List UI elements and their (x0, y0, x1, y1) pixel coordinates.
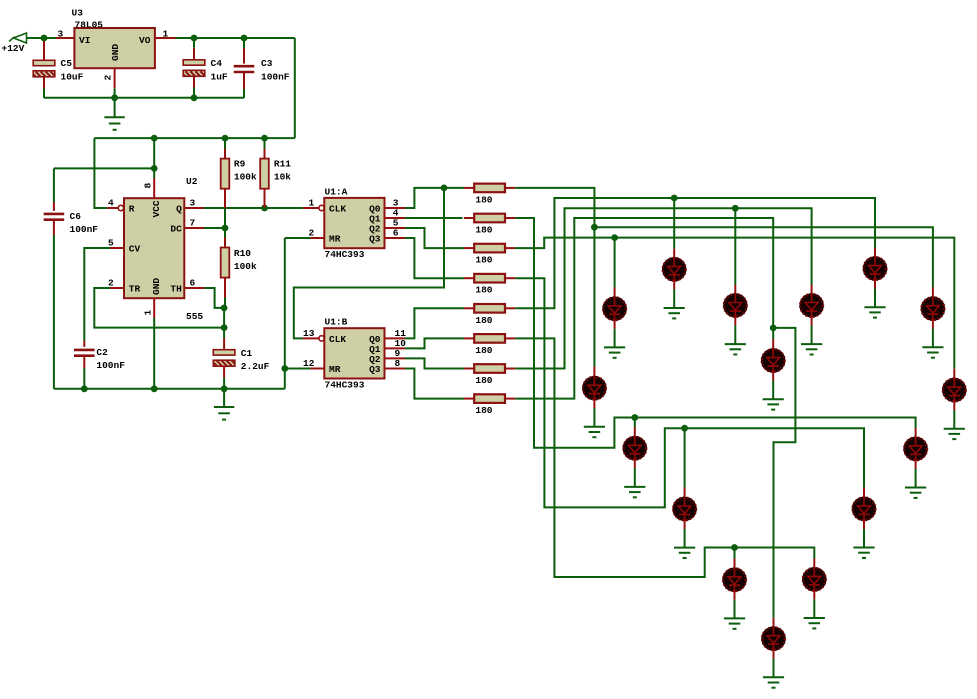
wire rail right corner (294, 38, 296, 138)
resistor R11 10k (260, 159, 269, 189)
svg-text:R11: R11 (274, 159, 291, 170)
node C3 tap (241, 35, 248, 42)
counter U1:A body (324, 198, 384, 248)
wire row4 dive (515, 278, 864, 507)
node row2 branch (631, 414, 638, 421)
node row7 branch (732, 205, 739, 212)
svg-text:6: 6 (190, 278, 196, 289)
svg-text:MR: MR (329, 234, 341, 245)
svg-text:100k: 100k (234, 172, 257, 183)
svg-text:R10: R10 (234, 248, 251, 259)
svg-text:TH: TH (170, 283, 182, 294)
svg-text:+12V: +12V (2, 43, 25, 54)
wire CLK13 pin (303, 337, 319, 339)
LED D13 (863, 488, 865, 498)
resistor R8 180 (464, 394, 515, 403)
svg-text:100nF: 100nF (261, 71, 290, 82)
wire D9 cathode (953, 410, 955, 429)
pin 11 Q0 wire (385, 337, 406, 339)
ground D2 (864, 307, 885, 317)
node rail/VCC (151, 135, 158, 142)
capacitor C1 leads (223, 328, 225, 338)
ground symbol main (114, 98, 116, 117)
svg-text:100nF: 100nF (70, 224, 99, 235)
node +12V/C5 (41, 35, 48, 42)
svg-text:C2: C2 (96, 347, 108, 358)
ground D15 (804, 618, 825, 628)
resistor R6 180 (464, 334, 515, 343)
wire D7 cathode (772, 381, 774, 400)
pin 1 GND wire of U2 (153, 298, 155, 318)
svg-text:74HC393: 74HC393 (325, 379, 365, 390)
wire D14 cathode (734, 600, 736, 619)
svg-text:TR: TR (129, 283, 141, 294)
node row8 branch (770, 325, 777, 332)
node gnd/U3 (111, 94, 118, 101)
pin 7 DC wire (184, 227, 204, 229)
capacitor C3 leads (243, 38, 245, 48)
LED D6 (932, 287, 934, 297)
wire +12V to VI (44, 37, 56, 39)
svg-text:6: 6 (393, 227, 399, 238)
svg-text:180: 180 (475, 225, 492, 236)
svg-text:180: 180 (475, 315, 492, 326)
svg-text:180: 180 (475, 255, 492, 266)
resistor R10 leads (224, 228, 226, 238)
ground D7 (763, 399, 784, 409)
wire C4 to bus (193, 76, 195, 87)
svg-text:Q: Q (176, 203, 182, 214)
svg-text:5: 5 (108, 238, 114, 249)
svg-text:100nF: 100nF (96, 360, 125, 371)
resistor R2 180 (464, 214, 515, 223)
svg-text:3: 3 (190, 198, 196, 209)
LED D4 anode wire (734, 208, 736, 284)
svg-text:4: 4 (108, 198, 114, 209)
LED D4 (734, 285, 736, 294)
ground D4 (725, 344, 746, 354)
capacitor C3 100nF (234, 66, 255, 72)
ground D16 (763, 677, 784, 687)
svg-text:10k: 10k (274, 172, 291, 183)
svg-text:MR: MR (329, 364, 341, 375)
wire Q0 to CLK13 (294, 188, 444, 339)
node VO/C4 (191, 35, 198, 42)
LED D5 (811, 285, 813, 294)
svg-text:C5: C5 (61, 58, 73, 69)
capacitor C5 10uF (33, 60, 55, 77)
svg-text:U2: U2 (186, 176, 198, 187)
wire C6 branch (54, 167, 154, 169)
wire VCC branch (153, 138, 155, 178)
ground D9 (944, 429, 965, 439)
ground D3 (604, 347, 625, 357)
svg-text:78L05: 78L05 (75, 19, 104, 30)
svg-text:10uF: 10uF (61, 71, 84, 82)
pin 8 Q3 wire (385, 368, 406, 370)
wire row1 to corner (515, 188, 594, 367)
LED D9 (953, 369, 955, 379)
wire net row1 horizontal (594, 227, 933, 287)
wire C5 to ground bus (43, 77, 45, 89)
svg-text:180: 180 (475, 345, 492, 356)
svg-text:7: 7 (190, 218, 196, 229)
node bus/U2gnd (151, 385, 158, 392)
node bus/C2 (81, 385, 88, 392)
svg-text:180: 180 (475, 194, 492, 205)
ground D13 (853, 548, 874, 558)
wire MR riser (284, 238, 286, 389)
svg-text:1uF: 1uF (211, 71, 228, 82)
node rail/R11 (261, 135, 268, 142)
ground D10 (624, 487, 645, 497)
svg-text:GND: GND (151, 278, 162, 295)
node TR/C1 (221, 324, 228, 331)
reset bubble (118, 205, 123, 210)
svg-text:Q3: Q3 (369, 364, 381, 375)
capacitor C2 100nF (74, 350, 95, 356)
ground D14 (724, 618, 745, 628)
resistor R10 100k (221, 248, 230, 278)
svg-text:CLK: CLK (329, 334, 346, 345)
wire D8 cathode (593, 408, 595, 427)
node bus/C1 (221, 385, 228, 392)
svg-text:2: 2 (108, 278, 114, 289)
capacitor C6 100nF (44, 214, 65, 220)
ground symbol 555 (223, 389, 225, 407)
pin 5 CV wire (110, 247, 124, 249)
wire row6 dive (515, 338, 814, 577)
svg-text:VCC: VCC (151, 200, 162, 217)
svg-text:R: R (129, 203, 135, 214)
LED D7 anode wire (772, 328, 774, 339)
node gnd/C4 (191, 94, 198, 101)
pin 6 TH wire (184, 287, 204, 289)
wire row7 riser (515, 208, 811, 368)
pin 1 wire VO to rail (155, 37, 176, 39)
pin 2 MR wire A (310, 237, 324, 239)
ground bus of regulator (44, 97, 244, 99)
svg-text:2: 2 (103, 75, 114, 81)
wire D13 cathode (863, 529, 865, 548)
voltage regulator U3 78L05 (74, 28, 154, 68)
svg-text:1: 1 (309, 198, 315, 209)
wire row8 bypass to bottom LED (773, 328, 795, 618)
LED D2 anode wire (874, 198, 876, 248)
wire D2 cathode (874, 289, 876, 308)
LED D10 (634, 427, 636, 437)
wire D12 cathode (684, 529, 686, 548)
svg-text:R9: R9 (234, 159, 246, 170)
pin 6 Q3 wire (385, 237, 406, 239)
pin 3 Q0 wire (385, 207, 406, 209)
LED D12 anode wire (684, 428, 686, 487)
svg-text:3: 3 (58, 28, 64, 39)
svg-text:12: 12 (303, 358, 315, 369)
svg-text:74HC393: 74HC393 (325, 249, 365, 260)
LED D3 anode wire (614, 238, 616, 288)
LED D7 (772, 339, 774, 349)
LED D14 (734, 559, 736, 569)
pin 5 Q2 wire (385, 227, 406, 229)
resistor R1 180 (464, 184, 515, 193)
svg-text:2: 2 (309, 228, 315, 239)
wire row5 riser (515, 198, 875, 308)
svg-text:Q3: Q3 (369, 234, 381, 245)
wire rail to reset pin (94, 138, 107, 208)
resistor R11 leads (264, 138, 266, 148)
capacitor C1 2.2uF (213, 350, 235, 367)
svg-text:U3: U3 (72, 8, 84, 19)
wire row8 riser (515, 218, 773, 399)
svg-text:U1:B: U1:B (325, 317, 348, 328)
LED D2 (874, 248, 876, 257)
svg-text:CV: CV (129, 243, 141, 254)
node MR U1:B (281, 365, 288, 372)
svg-text:1: 1 (142, 310, 153, 316)
svg-text:U1:A: U1:A (325, 186, 348, 197)
svg-text:CLK: CLK (329, 203, 346, 214)
node Q0 branch (441, 185, 448, 192)
svg-text:8: 8 (395, 358, 401, 369)
resistor R9 leads (224, 138, 226, 148)
pin 2 TR wire (110, 287, 124, 289)
U3 ground pin 2 (114, 68, 116, 88)
svg-text:C3: C3 (261, 58, 273, 69)
svg-text:180: 180 (475, 285, 492, 296)
LED D12 (684, 488, 686, 498)
ground D8 (584, 427, 605, 437)
svg-text:GND: GND (110, 44, 121, 61)
LED D1 anode wire (673, 198, 675, 249)
wire C2 to bus (83, 356, 85, 368)
svg-text:180: 180 (475, 405, 492, 416)
resistor R3 180 (464, 244, 515, 253)
node row5 branch (671, 195, 678, 202)
wire D11 cathode (915, 469, 917, 488)
resistor R4 180 (464, 274, 515, 283)
wire D5 cathode (811, 325, 813, 344)
wire Q to CLK1 (319, 205, 324, 210)
svg-text:C1: C1 (241, 348, 253, 359)
wire D6 cathode (932, 329, 934, 348)
svg-text:VI: VI (79, 35, 90, 46)
svg-text:100k: 100k (234, 261, 257, 272)
ground D11 (905, 488, 926, 498)
svg-text:180: 180 (475, 375, 492, 386)
node DC/R9/R10 (222, 225, 229, 232)
node row4 branch (681, 425, 688, 432)
pin 3 Q wire (184, 207, 204, 209)
svg-text:C6: C6 (70, 211, 82, 222)
node row3 branch (611, 234, 618, 241)
node Q/R11 (261, 205, 268, 212)
timer U2 555 body (124, 198, 184, 298)
pin 10 Q1 wire (385, 347, 406, 349)
node TH/R10 (221, 305, 228, 312)
pin 9 Q2 wire (385, 357, 406, 359)
LED D10 anode wire (634, 418, 636, 428)
ground D5 (801, 344, 822, 354)
power terminal +12V (9, 33, 44, 43)
resistor R9 100k (221, 159, 230, 189)
node row1 branch (591, 224, 598, 231)
pin 4 Q1 wire (385, 217, 406, 219)
node VCC/C6 (151, 165, 158, 172)
node row6 branch (731, 544, 738, 551)
capacitor C4 1uF (183, 60, 205, 77)
LED D8 (593, 367, 595, 377)
wire D10 cathode (634, 468, 636, 487)
resistor R5 180 (464, 304, 515, 313)
LED D16 (773, 618, 775, 627)
svg-text:555: 555 (186, 311, 203, 322)
wire row2 dive (515, 218, 915, 448)
svg-text:VO: VO (139, 35, 151, 46)
LED D1 (673, 249, 675, 258)
pin 12 MR wire B (310, 368, 324, 370)
wire 555 supply rail (94, 137, 294, 139)
resistor R7 180 (464, 364, 515, 373)
wire C3 to bus (243, 72, 245, 89)
svg-text:DC: DC (170, 223, 182, 234)
wire TH node to TR node (223, 308, 225, 328)
wire D16 cathode (773, 659, 775, 678)
node rail/R9 (222, 135, 229, 142)
capacitor C4 leads (193, 38, 195, 48)
svg-text:2.2uF: 2.2uF (241, 361, 270, 372)
LED D15 (813, 558, 815, 567)
svg-text:1: 1 (163, 28, 169, 39)
capacitor C5 leads (43, 41, 45, 60)
wire row3 jog (515, 238, 954, 369)
wire D4 cathode (734, 325, 736, 344)
wire D1 cathode (673, 289, 675, 308)
svg-text:13: 13 (303, 328, 315, 339)
svg-text:C4: C4 (211, 58, 223, 69)
ground D1 (664, 308, 685, 318)
ground D12 (674, 548, 695, 558)
LED D14 anode wire (734, 548, 736, 559)
svg-text:8: 8 (142, 183, 153, 189)
counter U1:B body (324, 328, 384, 378)
LED D11 (915, 428, 917, 438)
wire D3 cathode (614, 329, 616, 348)
wire D15 cathode (813, 599, 815, 618)
ground D6 (922, 347, 943, 357)
bottom ground bus (54, 388, 285, 390)
LED D3 (614, 287, 616, 297)
wire C6 to bottom bus (53, 220, 55, 235)
